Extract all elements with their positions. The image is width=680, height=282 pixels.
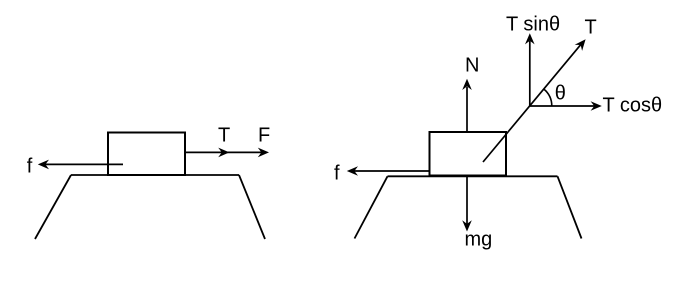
tension/force line T-F (left diagram) bbox=[186, 151, 263, 153]
tension diagonal arrow T bbox=[483, 39, 586, 162]
svg-text:F: F bbox=[258, 125, 270, 147]
svg-text:θ: θ bbox=[555, 83, 566, 105]
arrowhead T (left diagram) bbox=[218, 148, 229, 158]
normal arrow N bbox=[462, 79, 472, 132]
left table left leg bbox=[35, 175, 71, 239]
component arrow T sin theta bbox=[525, 33, 535, 106]
svg-text:T sinθ: T sinθ bbox=[506, 13, 560, 35]
svg-text:mg: mg bbox=[465, 229, 493, 251]
arrowhead F (left diagram) bbox=[258, 148, 269, 158]
svg-text:f: f bbox=[27, 156, 33, 178]
angle arc theta bbox=[544, 89, 552, 106]
component arrow T cos theta bbox=[530, 101, 602, 111]
svg-text:T cosθ: T cosθ bbox=[603, 95, 663, 117]
right block bbox=[430, 132, 507, 176]
weight arrow mg bbox=[462, 176, 472, 232]
right table left leg bbox=[355, 176, 388, 238]
svg-text:N: N bbox=[465, 55, 479, 77]
friction arrow f (left diagram) bbox=[38, 160, 123, 170]
left table right leg bbox=[239, 175, 265, 239]
svg-text:T: T bbox=[585, 17, 597, 39]
friction arrow f (right diagram) bbox=[347, 166, 429, 176]
svg-text:T: T bbox=[218, 125, 230, 147]
left block bbox=[108, 133, 185, 176]
left table top bbox=[71, 174, 239, 176]
right table top bbox=[388, 175, 558, 177]
svg-text:f: f bbox=[334, 163, 340, 185]
right table right leg bbox=[558, 176, 582, 238]
